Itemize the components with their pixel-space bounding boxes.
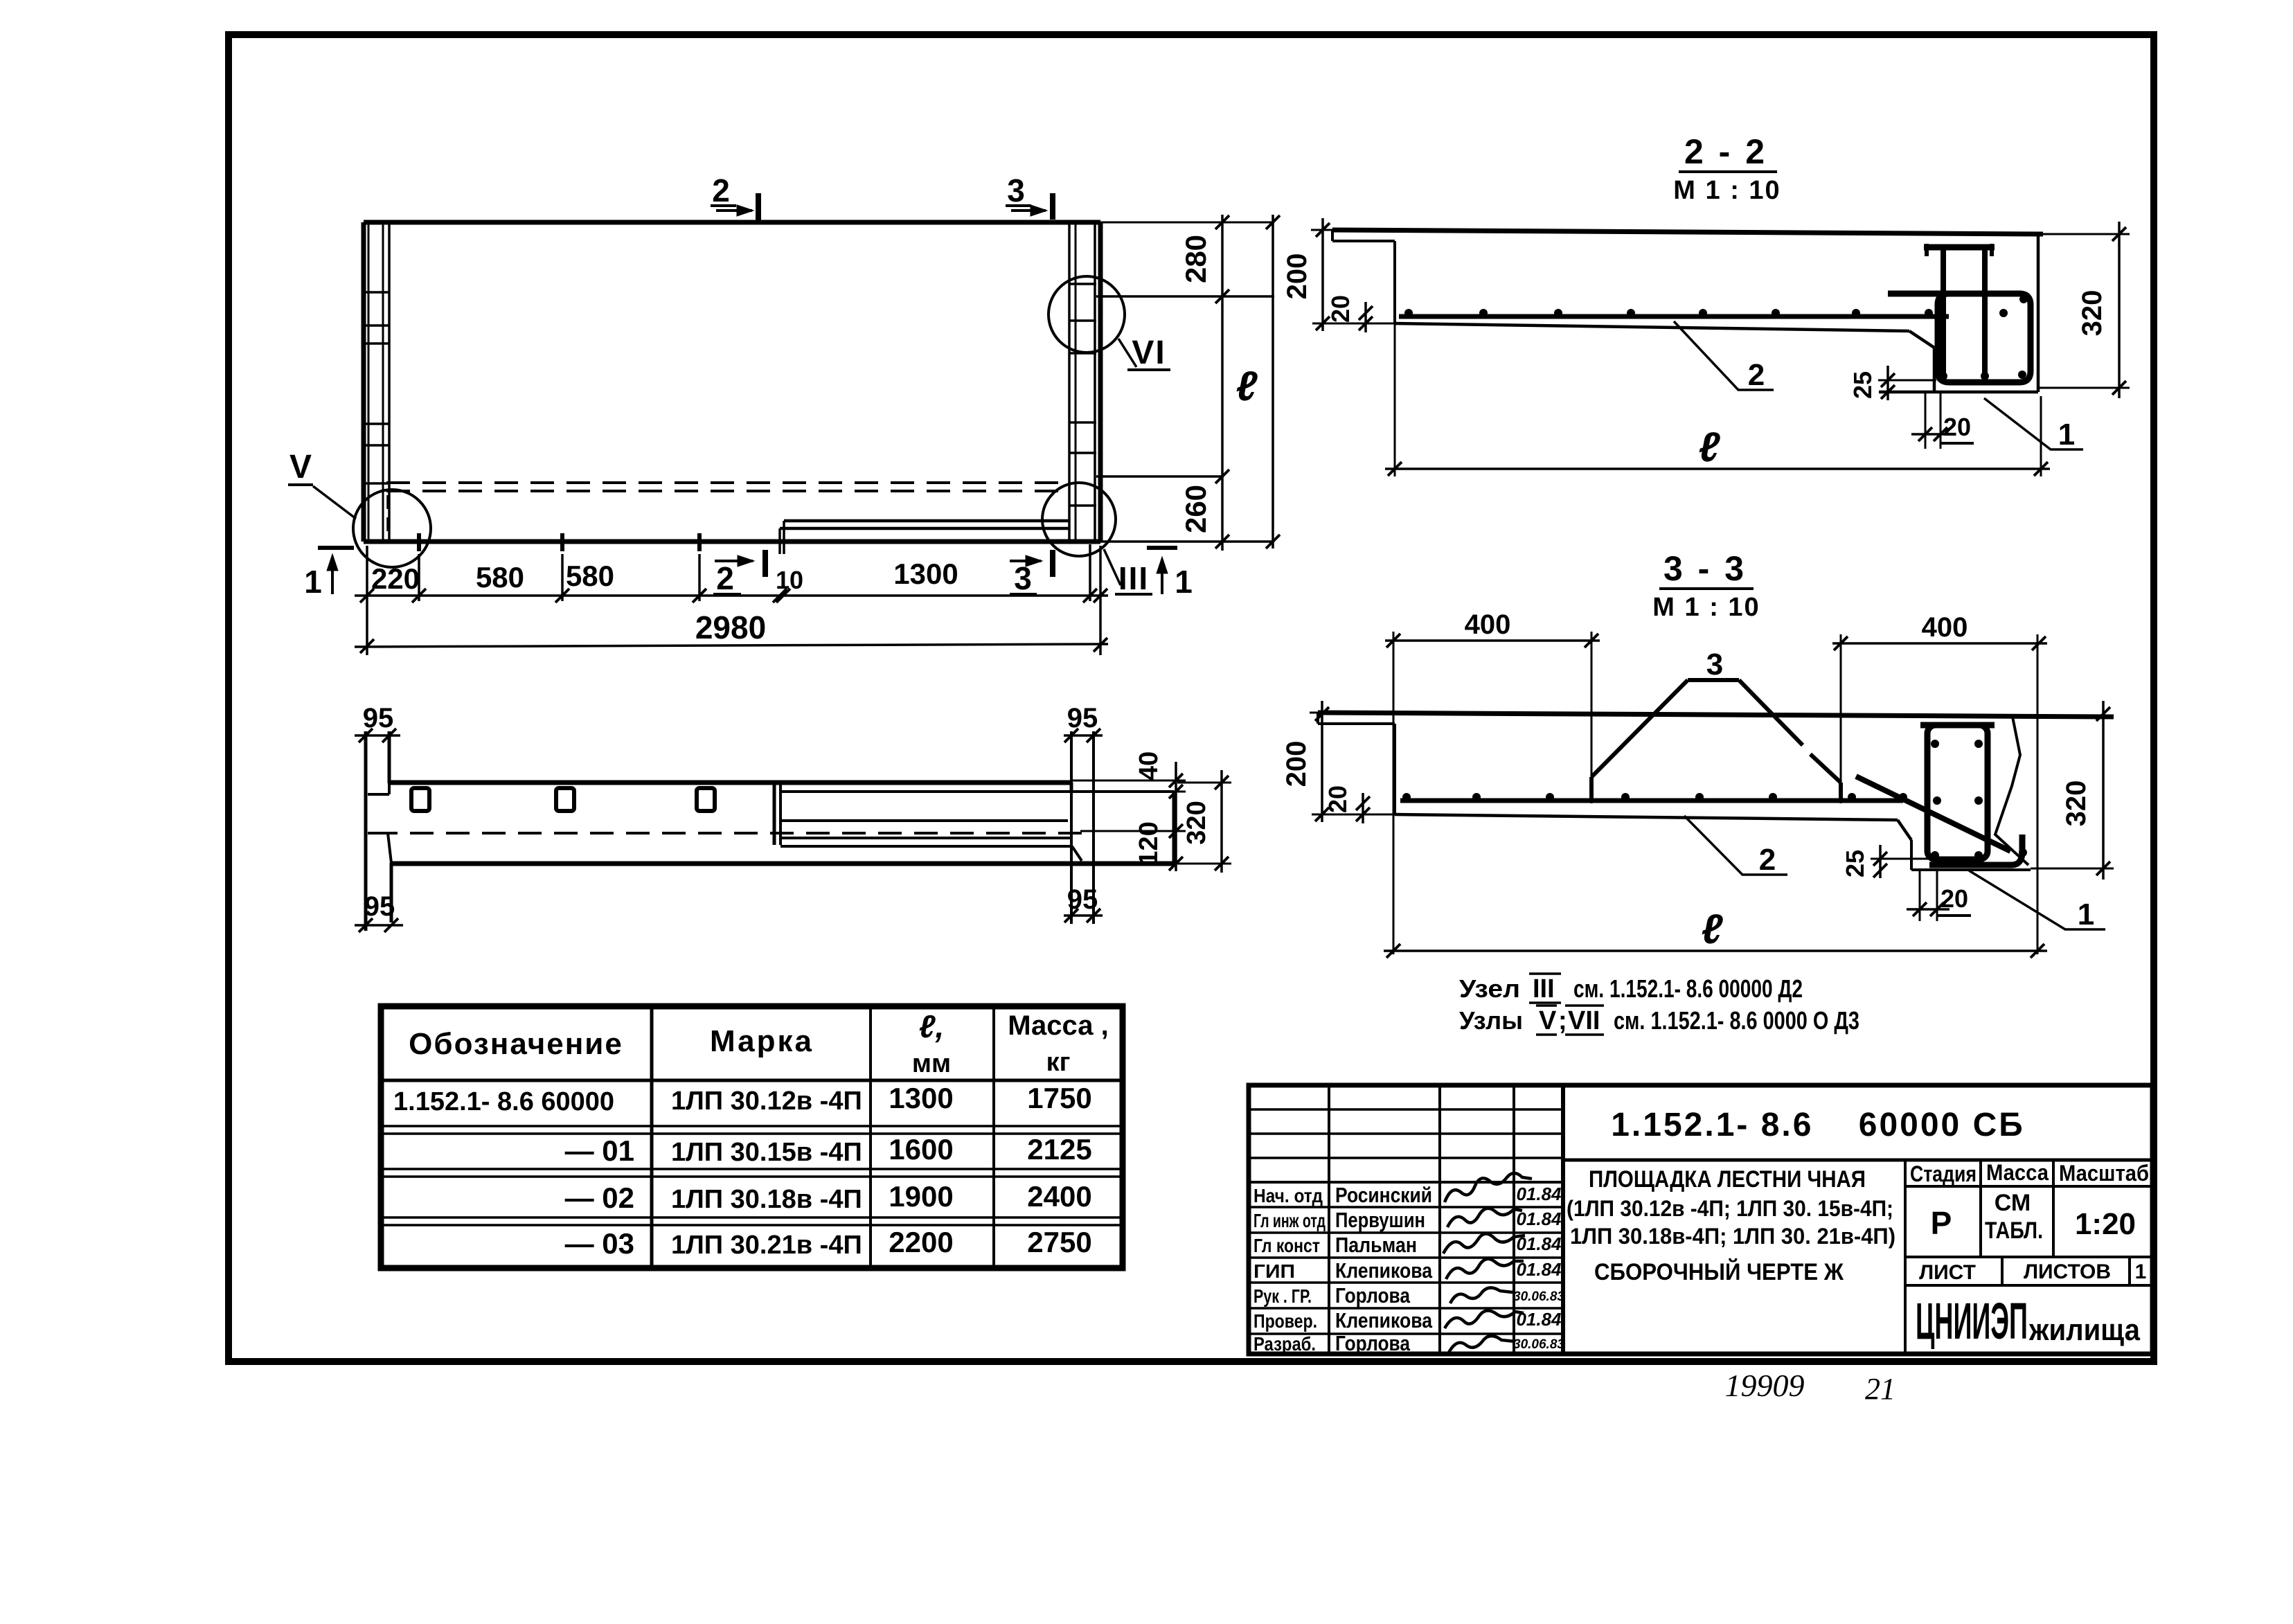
svg-text:1: 1: [2058, 418, 2075, 452]
titleblock: signature scribble 6: [1445, 1310, 1524, 1328]
section 2-2: rebar dots in rib: [1939, 372, 1947, 380]
plan: left wall outer edge: [362, 222, 366, 542]
svg-text:21: 21: [1865, 1372, 1895, 1406]
view 1-1: slab bottom edge: [391, 862, 1174, 866]
svg-text:30.06.83: 30.06.83: [1513, 1290, 1564, 1304]
plan: right wall outer edge: [1098, 222, 1103, 542]
titleblock: signature scribble 2: [1447, 1208, 1522, 1227]
section 2-2: hairpin bar legs: [1940, 247, 1946, 377]
section 3-3: dim line l: [1384, 949, 2047, 952]
section 2-2: rib right edge: [2037, 234, 2040, 392]
svg-text:1750: 1750: [1027, 1082, 1091, 1114]
svg-text:(1ЛП 30.12в -4П; 1ЛП 30. 15в-4: (1ЛП 30.12в -4П; 1ЛП 30. 15в-4П;: [1567, 1196, 1893, 1221]
section 3-3: dim 320 extension: [2031, 868, 2114, 870]
view 1-1: dim 40: [1175, 762, 1177, 803]
svg-text:Разраб.: Разраб.: [1253, 1333, 1316, 1355]
svg-text:200: 200: [1281, 741, 1312, 787]
svg-text:1: 1: [2135, 1260, 2147, 1283]
view 1-1: rib lines: [780, 819, 1068, 822]
svg-text:1: 1: [304, 564, 322, 600]
svg-text:— 02: — 02: [565, 1181, 634, 1214]
plan: right overall dim line l: [1272, 215, 1274, 548]
titleblock: signature table verticals: [1328, 1085, 1330, 1354]
plan: slab top edge: [364, 220, 1100, 225]
svg-text:200: 200: [1282, 253, 1312, 300]
view 1-1: left end inner edge lower: [390, 863, 393, 922]
section 2-2: stirrup with extended top bar: [1888, 294, 2031, 382]
section 2-2: dim 20 below rib extensions: [1925, 392, 1927, 449]
section 2-2: left end tip: [1331, 230, 1334, 241]
view 1-1: dim 320: [1220, 770, 1223, 873]
plan: section marker 3 bottom: [1010, 560, 1041, 562]
svg-text:95: 95: [364, 891, 395, 922]
section 3-3: dim 20 below rib: [1907, 908, 1950, 911]
svg-text:20: 20: [1943, 413, 1971, 441]
svg-text:Обозначение: Обозначение: [409, 1027, 623, 1061]
svg-text:1300: 1300: [893, 557, 958, 590]
section 3-3: bent bar 3 right leg: [1839, 783, 1843, 798]
section 3-3: bent bar 3 left diagonal: [1591, 680, 1688, 777]
svg-text:2: 2: [712, 172, 730, 208]
svg-text:Горлова: Горлова: [1335, 1283, 1411, 1308]
svg-text:20: 20: [1940, 884, 1968, 913]
titleblock: signature rows horizontals: [1249, 1181, 1563, 1184]
section 2-2: rib bottom edge: [1879, 391, 2038, 394]
svg-text:Узел: Узел: [1459, 974, 1520, 1003]
svg-text:95: 95: [1067, 884, 1098, 915]
section 3-3: left edge vertical: [1393, 724, 1396, 814]
section 2-2: rib left edge: [1933, 348, 1936, 392]
section 3-3: stirrup: [1927, 725, 1988, 859]
svg-text:1:20: 1:20: [2075, 1207, 2136, 1241]
svg-text:320: 320: [2061, 780, 2091, 827]
section 2-2: left edge vertical: [1393, 241, 1396, 323]
plan: right wall inner lines: [1094, 222, 1096, 542]
plan: section marker 2 bottom: [715, 560, 753, 562]
svg-text:320: 320: [1182, 801, 1211, 844]
section 3-3: dim l extensions: [1393, 714, 1395, 954]
table: column lines: [650, 1006, 654, 1268]
section 3-3: dim 200 extension: [1312, 814, 1395, 816]
plan: hidden rib edge dashed lines: [386, 481, 1069, 484]
svg-text:95: 95: [363, 703, 394, 733]
titleblock: signature scribble 7: [1449, 1336, 1515, 1353]
titleblock: separator to name area: [1561, 1085, 1565, 1354]
svg-text:1300: 1300: [889, 1082, 953, 1114]
section 2-2: dim 20 below rib: [1911, 433, 1954, 436]
svg-text:Первушин: Первушин: [1335, 1208, 1425, 1232]
plan: ledge double line: [784, 519, 1069, 523]
svg-text:жилища: жилища: [2028, 1313, 2140, 1347]
plan: right dim extension lines: [1100, 222, 1274, 224]
svg-text:см. 1.152.1- 8.6 00000 Д2: см. 1.152.1- 8.6 00000 Д2: [1573, 974, 1803, 1003]
section 3-3: rib concrete bottom: [1910, 840, 1913, 870]
svg-text:СМ: СМ: [1995, 1190, 2031, 1216]
svg-text:ℓ,: ℓ,: [919, 1008, 945, 1044]
svg-text:20: 20: [1326, 295, 1355, 323]
titleblock: signature scribble 1: [1445, 1173, 1532, 1202]
svg-text:ГИП: ГИП: [1253, 1260, 1295, 1282]
svg-text:Масса ,: Масса ,: [1008, 1010, 1109, 1041]
section 2-2: dim line l: [1385, 467, 2050, 470]
svg-text:19909: 19909: [1725, 1368, 1805, 1403]
svg-text:мм: мм: [912, 1049, 951, 1078]
svg-text:Нач. отд: Нач. отд: [1253, 1185, 1323, 1206]
plan: detail circle V: [353, 490, 431, 567]
section 3-3: bent bar 3 right diagonal: [1739, 680, 1803, 745]
section 3-3: dim 20 below rib extensions: [1919, 870, 1921, 921]
svg-text:М 1 : 10: М 1 : 10: [1652, 593, 1760, 622]
svg-text:см. 1.152.1- 8.6 0000 О Д3: см. 1.152.1- 8.6 0000 О Д3: [1614, 1006, 1859, 1035]
section 2-2: hairpin bar top: [1924, 244, 1995, 251]
section 3-3: dim 400 left: [1385, 639, 1600, 642]
section 3-3: leader 2: [1684, 816, 1787, 875]
section 2-2: flange bottom edge: [1395, 323, 1909, 331]
section 2-2: dim 200: [1321, 218, 1324, 331]
svg-text:Стадия: Стадия: [1910, 1161, 1977, 1186]
titleblock: name cell vertical: [1904, 1160, 1907, 1354]
svg-text:3 - 3: 3 - 3: [1663, 549, 1747, 588]
svg-text:01.84: 01.84: [1516, 1184, 1562, 1204]
view 1-1: dim 120 extension line: [1080, 830, 1186, 832]
section 3-3: leader 1: [1969, 871, 2105, 929]
view 1-1: recessed top edge: [780, 790, 1174, 793]
section 3-3: extension verticals for 400 dims: [1393, 632, 1395, 714]
view 1-1: hidden axis dashed line: [374, 832, 1094, 835]
svg-text:260: 260: [1179, 485, 1212, 533]
svg-text:Пальман: Пальман: [1335, 1233, 1417, 1257]
section 3-3: rib bottom bar: [1929, 835, 2022, 865]
plan: right dim line 280/260: [1221, 215, 1224, 551]
svg-text:320: 320: [2077, 290, 2107, 337]
svg-text:Р: Р: [1931, 1205, 1952, 1241]
svg-text:120: 120: [1134, 821, 1163, 865]
section 3-3: mesh bar 2: [1400, 798, 1903, 803]
svg-text:СБОРОЧНЫЙ ЧЕРТЕ Ж: СБОРОЧНЫЙ ЧЕРТЕ Ж: [1594, 1258, 1844, 1285]
plan: detail circle III: [1042, 483, 1116, 556]
plan: leader to circle III: [1104, 549, 1121, 585]
view 1-1: left end notch: [368, 793, 389, 796]
plan: section marker 1 left: [318, 546, 354, 550]
svg-text:VII: VII: [1568, 1006, 1600, 1035]
svg-text:;: ;: [1558, 1006, 1567, 1035]
section 2-2: dim l extensions: [1394, 323, 1396, 476]
svg-text:1ЛП 30.12в -4П: 1ЛП 30.12в -4П: [671, 1087, 862, 1116]
svg-text:2125: 2125: [1027, 1133, 1091, 1166]
svg-text:Масса: Масса: [1986, 1160, 2049, 1185]
plan: left wall inner lines: [368, 222, 370, 542]
section 3-3: dim 320: [2102, 701, 2105, 880]
svg-text:ЛИСТ: ЛИСТ: [1919, 1261, 1976, 1284]
svg-text:ℓ: ℓ: [1699, 424, 1721, 470]
svg-text:580: 580: [476, 561, 524, 594]
section 2-2: slab top edge: [1332, 230, 2043, 234]
titleblock: signature scribble 4: [1446, 1259, 1524, 1279]
section 2-2: dim 320: [2118, 222, 2121, 398]
svg-text:1900: 1900: [889, 1180, 953, 1213]
section 2-2: mesh wire dots: [1404, 309, 1413, 317]
svg-text:1ЛП 30.18в -4П: 1ЛП 30.18в -4П: [671, 1185, 862, 1214]
view 1-1: rib step verticals: [773, 783, 776, 845]
svg-text:2: 2: [1748, 358, 1765, 392]
svg-text:ЛИСТОВ: ЛИСТОВ: [2024, 1260, 2111, 1283]
view 1-1: left end ledge at rib level: [368, 832, 388, 835]
table: outer border: [381, 1006, 1123, 1268]
svg-text:01.84: 01.84: [1516, 1208, 1562, 1229]
svg-text:ЦНИИЭП: ЦНИИЭП: [1916, 1292, 2028, 1350]
section 2-2: leader 2: [1674, 321, 1774, 390]
svg-text:2200: 2200: [889, 1226, 953, 1258]
view 1-1: dim 40 extension lines: [1071, 780, 1186, 782]
svg-text:Клепикова: Клепикова: [1335, 1308, 1433, 1332]
section 2-2: leader 1: [1984, 398, 2083, 449]
section 3-3: stirrup top bar ticks: [1920, 722, 1995, 729]
svg-text:2 - 2: 2 - 2: [1684, 132, 1767, 171]
svg-text:2980: 2980: [695, 609, 766, 645]
plan: hidden rib edge vertical dashes at left: [386, 495, 389, 539]
svg-text:— 03: — 03: [565, 1227, 634, 1260]
section 3-3: diagonal bar in rib: [1856, 776, 2010, 851]
plan: leader to circle V: [313, 486, 356, 519]
svg-text:1600: 1600: [889, 1133, 953, 1166]
svg-text:25: 25: [1841, 850, 1869, 877]
svg-text:10: 10: [776, 566, 803, 594]
section 3-3: dim 400 right: [1832, 642, 2047, 645]
section 3-3: rebar dots in rib: [1931, 740, 1939, 748]
svg-text:2400: 2400: [1027, 1180, 1091, 1213]
svg-text:ℓ: ℓ: [1236, 363, 1258, 409]
plan: dim extension lines bottom: [366, 546, 368, 655]
svg-text:Марка: Марка: [710, 1024, 814, 1058]
svg-text:1ЛП 30.21в -4П: 1ЛП 30.21в -4П: [671, 1231, 862, 1260]
svg-text:ℓ: ℓ: [1702, 906, 1724, 952]
svg-text:III: III: [1533, 974, 1555, 1003]
plan: ledge step verticals: [778, 528, 781, 554]
svg-text:Масштаб: Масштаб: [2059, 1161, 2149, 1186]
svg-text:3: 3: [1706, 648, 1723, 681]
plan: leader to circle VI: [1118, 339, 1136, 367]
svg-text:400: 400: [1465, 609, 1511, 640]
titleblock: signature scribble 5: [1450, 1287, 1513, 1303]
svg-text:25: 25: [1848, 371, 1877, 399]
section 2-2: mesh bar 2: [1399, 314, 1949, 319]
svg-text:95: 95: [1067, 703, 1098, 733]
table: row separator 2: [381, 1168, 1123, 1170]
svg-text:Узлы: Узлы: [1459, 1006, 1523, 1035]
section 3-3: dim 20: [1362, 793, 1364, 823]
section 3-3: left end tip: [1317, 713, 1319, 724]
svg-text:2: 2: [716, 560, 734, 596]
section 2-2: dim 25: [1886, 366, 1889, 400]
svg-text:Провер.: Провер.: [1253, 1310, 1317, 1332]
svg-text:220: 220: [371, 562, 420, 595]
plan: detail circle VI: [1049, 276, 1125, 353]
svg-text:1ЛП 30.15в -4П: 1ЛП 30.15в -4П: [671, 1138, 862, 1167]
view 1-1: top step at right end: [1070, 783, 1073, 792]
svg-text:— 01: — 01: [565, 1134, 634, 1167]
svg-text:кг: кг: [1046, 1048, 1071, 1077]
view 1-1: right nib end edge: [1172, 792, 1176, 864]
view 1-1: left end inner edge upper: [388, 731, 391, 783]
section 3-3: slab top edge: [1318, 713, 2114, 717]
section 3-3: bent bar 3 leg: [1589, 777, 1594, 798]
titleblock: outer border: [1249, 1085, 2152, 1354]
svg-text:1.152.1- 8.6 60000: 1.152.1- 8.6 60000: [393, 1087, 614, 1116]
section 2-2: dim 200 extension: [1312, 323, 1395, 325]
svg-text:V: V: [1539, 1006, 1557, 1035]
svg-text:1: 1: [1175, 564, 1193, 600]
section 3-3: break line right edge: [1995, 717, 2028, 865]
svg-text:Росинский: Росинский: [1335, 1183, 1432, 1207]
section 3-3: mesh wire dots: [1402, 793, 1411, 801]
svg-text:3: 3: [1007, 172, 1025, 208]
svg-text:3: 3: [1014, 560, 1032, 596]
svg-text:ПЛОЩАДКА ЛЕСТНИ ЧНАЯ: ПЛОЩАДКА ЛЕСТНИ ЧНАЯ: [1589, 1166, 1866, 1193]
plan: right wall keyway notches: [1069, 283, 1096, 285]
svg-text:Гл конст: Гл конст: [1253, 1235, 1320, 1256]
svg-text:Клепикова: Клепикова: [1335, 1258, 1433, 1283]
titleblock: list row: [1905, 1256, 2152, 1258]
section 3-3: flange bottom edge: [1395, 814, 1898, 820]
svg-text:Рук . ГР.: Рук . ГР.: [1253, 1285, 1312, 1307]
view 1-1: dim 95 bottom-left: [355, 924, 403, 927]
section 2-2: dim 20: [1364, 302, 1367, 332]
view 1-1: right end block verticals: [1070, 731, 1073, 924]
svg-text:Горлова: Горлова: [1335, 1331, 1411, 1355]
view 1-1: lifting holes: [411, 788, 429, 811]
svg-text:20: 20: [1323, 785, 1352, 813]
titleblock: document number cell line: [1563, 1159, 2152, 1162]
view 1-1: dim 95 bottom-right: [1064, 914, 1103, 917]
svg-text:280: 280: [1179, 235, 1212, 283]
plan: bottom edge weld marks: [417, 533, 421, 551]
svg-text:30.06.83: 30.06.83: [1513, 1337, 1564, 1352]
svg-text:2: 2: [1759, 843, 1776, 877]
svg-text:580: 580: [566, 560, 614, 592]
svg-text:1ЛП 30.18в-4П; 1ЛП 30. 21в-4П): 1ЛП 30.18в-4П; 1ЛП 30. 21в-4П): [1570, 1224, 1895, 1249]
titleblock: upper empty rows: [1249, 1108, 1563, 1111]
svg-text:40: 40: [1134, 751, 1163, 780]
svg-text:Гл инж отд: Гл инж отд: [1253, 1210, 1326, 1231]
svg-text:2750: 2750: [1027, 1226, 1091, 1258]
titleblock: signature scribble 3: [1443, 1233, 1525, 1253]
section 2-2: dim 320 extensions: [2043, 233, 2130, 235]
table: row separator 3: [381, 1216, 1123, 1219]
view 1-1: left end outer edge: [364, 731, 368, 931]
plan: left wall keyway notches: [365, 291, 389, 294]
svg-text:III: III: [1118, 560, 1149, 596]
view 1-1: dim 95 top-left: [355, 734, 400, 737]
view 1-1: dim 95 top-right: [1064, 734, 1103, 737]
table: row separator 1: [381, 1125, 1123, 1127]
plan: slab bottom edge: [364, 539, 1100, 544]
svg-text:V: V: [289, 449, 312, 485]
svg-text:ТАБЛ.: ТАБЛ.: [1985, 1217, 2043, 1244]
section 3-3: dim 25: [1879, 845, 1882, 878]
view 1-1: dim 320 extension lines: [1177, 782, 1231, 784]
view 1-1: slab top edge: [389, 780, 1071, 785]
titleblock: stadiya massa masshtab grid: [1905, 1185, 2152, 1188]
plan: overall dim line 2980: [355, 644, 1108, 647]
view 1-1: dim 120: [1169, 824, 1183, 838]
svg-text:1.152.1- 8.6 60000 СБ: 1.152.1- 8.6 60000 СБ: [1611, 1107, 2025, 1143]
plan: bottom dim line 220/580/580/10/1300: [355, 594, 1108, 597]
svg-text:1: 1: [2078, 898, 2094, 931]
section 3-3: bent bar 3 top: [1688, 678, 1739, 682]
plan: section marker 1 right: [1147, 546, 1177, 550]
table: header bottom line: [381, 1079, 1123, 1082]
svg-text:400: 400: [1922, 612, 1968, 643]
svg-text:М 1 : 10: М 1 : 10: [1673, 176, 1781, 205]
page frame: [229, 35, 2154, 1362]
section 3-3: dim 200: [1321, 701, 1323, 822]
